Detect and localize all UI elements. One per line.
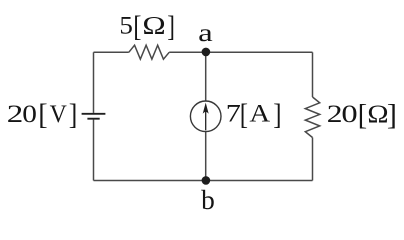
svg-text:a: a	[198, 18, 213, 47]
svg-text:A: A	[249, 99, 270, 128]
svg-text:b: b	[201, 185, 215, 215]
value label 7[A] for current source I1	[226, 99, 282, 131]
resistor R2 20 ohm zigzag	[305, 97, 319, 138]
node b label	[201, 185, 215, 215]
svg-text:]: ]	[387, 100, 397, 132]
svg-text:[: [	[240, 99, 248, 131]
current source U1 circle	[190, 101, 221, 132]
svg-text:[: [	[358, 100, 367, 132]
wire bottom segment	[94, 180, 313, 182]
wire right lower segment	[312, 138, 314, 181]
wire middle upper segment	[205, 52, 207, 101]
svg-text:0: 0	[341, 99, 357, 128]
battery V1 long plate	[82, 113, 106, 115]
svg-text:]: ]	[273, 99, 281, 131]
value label 5[ohm] for resistor R1	[119, 10, 174, 42]
svg-text:0: 0	[22, 99, 37, 128]
svg-text:Ω: Ω	[367, 99, 388, 128]
current source arrowhead	[203, 103, 209, 114]
wire middle lower segment	[205, 132, 207, 181]
wire left lower segment	[93, 120, 95, 181]
wire top-left segment	[94, 51, 129, 53]
value label 20[V] for source V1	[7, 99, 78, 131]
battery V1 short plate	[87, 118, 99, 120]
wire top-right segment	[169, 51, 312, 53]
node a label	[198, 18, 213, 47]
svg-text:Ω: Ω	[142, 10, 165, 39]
svg-text:[: [	[133, 11, 141, 43]
svg-text:5: 5	[119, 10, 133, 39]
node b dot	[202, 176, 211, 185]
node a dot	[202, 48, 211, 57]
resistor R1 5 ohm zigzag	[129, 45, 169, 59]
svg-text:]: ]	[69, 99, 78, 131]
svg-text:V: V	[50, 99, 68, 128]
wire right upper segment	[312, 52, 314, 97]
value label 20[ohm] for resistor R2	[327, 99, 397, 131]
current source arrow shaft	[205, 112, 207, 131]
svg-text:2: 2	[327, 99, 343, 128]
svg-text:2: 2	[7, 99, 24, 128]
wire left upper segment	[93, 52, 95, 113]
svg-text:]: ]	[167, 11, 175, 43]
svg-text:[: [	[38, 99, 47, 131]
